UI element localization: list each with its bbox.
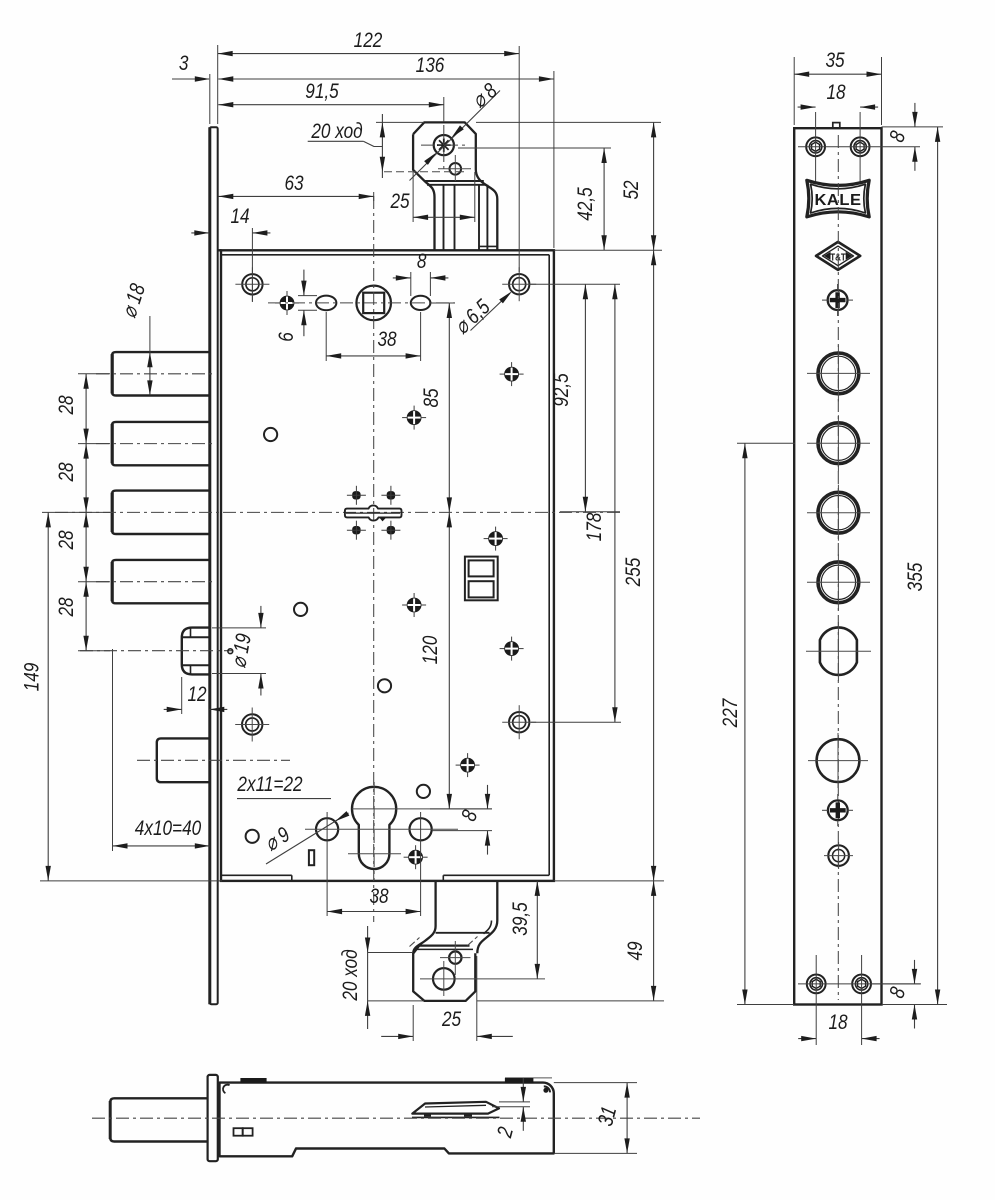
dimension 136 xyxy=(218,78,554,80)
dimension 38 top xyxy=(326,355,420,357)
cylinder hole row centerline xyxy=(305,828,458,830)
dimension 255 xyxy=(653,250,655,881)
mounting post top-left xyxy=(242,274,262,294)
deadbolt pin 4 xyxy=(112,560,209,603)
euro cylinder keyhole xyxy=(352,787,396,869)
faceplate screw top-right xyxy=(851,137,870,156)
side dimension 18 bottom xyxy=(798,1038,816,1040)
lower deadbolt hole side xyxy=(817,739,860,782)
dimension 8 ovals xyxy=(393,277,411,279)
spindle hub circle xyxy=(356,286,391,321)
bottom view right corner curl xyxy=(544,1086,550,1092)
bolt hole side 1 xyxy=(818,353,859,394)
rivet hole 5 xyxy=(246,830,259,843)
side view vertical centerline xyxy=(837,135,839,1000)
svg-text:38: 38 xyxy=(369,884,388,908)
dimension 25 top xyxy=(413,216,475,218)
actuator nut 1 xyxy=(353,492,360,499)
latch row main centerline xyxy=(55,511,620,513)
latch hole side (flatted) xyxy=(820,627,857,675)
side dimension 8 bottom xyxy=(914,960,916,984)
svg-text:38: 38 xyxy=(377,327,396,351)
dimension 149 xyxy=(47,512,49,881)
handle slot oval left xyxy=(316,296,336,311)
svg-text:2x11=22: 2x11=22 xyxy=(237,772,303,796)
case screw A xyxy=(280,296,294,310)
dimension 91,5 xyxy=(218,104,443,106)
dimension 38 bottom xyxy=(327,911,421,913)
svg-text:120: 120 xyxy=(418,636,442,665)
cylinder screw hole right xyxy=(410,818,432,840)
deadbolt pin 1 xyxy=(112,352,209,395)
top hook fold lines xyxy=(425,180,484,182)
lock case inner cover bottom-left segment xyxy=(222,874,292,876)
bottom view clip rectangles xyxy=(234,1128,243,1136)
cylinder screw hole left Ф9 xyxy=(316,818,338,840)
phillips screw lower xyxy=(828,800,848,820)
stop block double square xyxy=(465,557,498,601)
dimension 39,5 xyxy=(536,881,538,979)
svg-text:18: 18 xyxy=(826,80,845,104)
svg-text:25: 25 xyxy=(390,189,410,213)
case screw B xyxy=(505,367,519,381)
svg-text:39,5: 39,5 xyxy=(508,902,532,936)
dimension 20 hod top xyxy=(381,114,383,178)
mounting post bottom-left xyxy=(242,714,262,734)
lower deadbolt centerline xyxy=(137,759,290,761)
bottom view faceplate bar xyxy=(208,1075,218,1161)
bottom hook inner curve xyxy=(484,921,492,934)
bottom dimension 2 xyxy=(522,1078,524,1102)
svg-text:12: 12 xyxy=(187,682,206,706)
bolt hole side 3 xyxy=(818,492,859,533)
case screw D xyxy=(489,532,503,546)
extension lines top xyxy=(209,74,211,124)
svg-text:20 ход: 20 ход xyxy=(310,119,362,143)
bottom hook chamfer dashes xyxy=(410,938,420,947)
dimension 92,5 xyxy=(584,284,586,512)
faceplate side view plate xyxy=(794,128,881,1004)
bottom view latch blade xyxy=(412,1102,499,1114)
top hook stem inner edges xyxy=(443,185,445,251)
dimension 178 xyxy=(614,284,616,722)
bottom view case body xyxy=(220,1083,554,1157)
side dimension 355 xyxy=(937,127,939,1005)
dimension 42,5 xyxy=(603,148,605,250)
small ring hole side xyxy=(828,845,849,866)
svg-text:52: 52 xyxy=(619,180,643,199)
bolt hole side 2 xyxy=(818,423,859,464)
lock case top edge extension to faceplate xyxy=(217,249,221,251)
bottom view centerline xyxy=(92,1117,700,1119)
svg-text:18: 18 xyxy=(828,1010,847,1034)
dimension F19 xyxy=(260,606,262,628)
dimension 85 xyxy=(448,303,450,512)
KALE logo frame xyxy=(807,180,869,217)
deadbolt pin 3 xyxy=(112,491,209,534)
bottom view deadbolt xyxy=(110,1098,208,1141)
dimension 28 x4 xyxy=(85,374,87,444)
svg-text:14: 14 xyxy=(230,204,249,228)
svg-text:28: 28 xyxy=(54,530,78,550)
svg-text:122: 122 xyxy=(354,28,383,52)
svg-text:25: 25 xyxy=(441,1007,461,1031)
phillips screw upper xyxy=(828,290,848,310)
svg-text:4x10=40: 4x10=40 xyxy=(135,816,202,840)
actuator nut 4 xyxy=(387,527,394,534)
latch actuator bar xyxy=(345,505,402,520)
bottom hook plate outline xyxy=(413,946,475,1001)
top hook foot tab xyxy=(479,245,497,247)
bottom dimension 31 xyxy=(626,1083,628,1154)
side dimension 18 top xyxy=(798,106,816,108)
bottom hook fold line xyxy=(436,932,490,934)
deadbolt pin 2 xyxy=(112,422,209,465)
dimension 28 ticks xyxy=(78,373,110,375)
top hook retracted-position dashed line xyxy=(384,171,468,173)
svg-text:28: 28 xyxy=(54,395,78,415)
svg-text:49: 49 xyxy=(623,941,647,960)
TSE diamond logo xyxy=(816,242,860,270)
svg-text:136: 136 xyxy=(416,53,445,77)
svg-text:355: 355 xyxy=(903,563,927,592)
actuator nut 3 xyxy=(353,527,360,534)
svg-text:63: 63 xyxy=(284,171,303,195)
svg-text:149: 149 xyxy=(20,663,44,692)
bolt hole side 4 xyxy=(818,562,859,603)
bottom hook small hole xyxy=(449,951,461,963)
handle slot oval right xyxy=(411,296,431,310)
bottom screw row centerline xyxy=(798,983,920,985)
dimension 6 xyxy=(303,270,305,296)
leader line for Ф8 hole xyxy=(410,91,501,181)
dimension 63 xyxy=(218,195,373,197)
dimension 14 xyxy=(191,232,209,234)
bottom view top tabs xyxy=(241,1079,266,1083)
case screw G xyxy=(461,758,475,772)
dimension 122 xyxy=(218,53,520,55)
svg-text:255: 255 xyxy=(621,558,645,588)
rivet hole 3 xyxy=(378,679,391,692)
side dimension 35 xyxy=(794,73,881,75)
screw row centerline xyxy=(798,146,920,148)
actuator nut 2 xyxy=(387,492,394,499)
lock case inner cover right edge xyxy=(548,255,550,876)
top hook bracket plate outline xyxy=(413,122,497,250)
svg-text:20 ход: 20 ход xyxy=(338,949,362,1001)
keyhole stem bottom crosshair xyxy=(348,853,401,855)
dimension F9 leader xyxy=(266,813,349,864)
rivet hole 1 xyxy=(264,428,277,441)
latchbolt Ф19 xyxy=(182,628,210,675)
bottom hook hole xyxy=(433,968,455,990)
bottom hook plate top edges xyxy=(419,944,469,946)
lower deadbolt xyxy=(157,738,210,782)
dimension 20 hod bottom xyxy=(367,926,369,1029)
small slot near keyhole xyxy=(309,850,314,865)
dimension 12 xyxy=(164,708,182,710)
bottom view left corner curl xyxy=(223,1085,230,1094)
hub/oval row centerline xyxy=(268,302,455,304)
top hook small hole xyxy=(450,163,462,175)
dimension 25 bottom xyxy=(381,1035,413,1037)
case screw E xyxy=(407,598,421,612)
faceplate screw bottom-right xyxy=(852,975,871,994)
lock case inner cover bottom-right segment xyxy=(443,874,549,876)
rivet hole 2 xyxy=(294,603,307,616)
svg-text:28: 28 xyxy=(54,597,78,617)
svg-text:8: 8 xyxy=(417,249,427,273)
dimension 8 bottom xyxy=(487,785,489,809)
svg-text:227: 227 xyxy=(718,698,742,729)
faceplate screw bottom-left xyxy=(807,975,826,994)
svg-text:35: 35 xyxy=(825,48,844,72)
faceplate top notch xyxy=(833,123,840,129)
dimension F6.5 leader xyxy=(471,293,511,330)
mounting post top-right xyxy=(509,274,529,294)
lock case outer body xyxy=(221,250,554,881)
side dimension 8 top xyxy=(914,103,916,127)
svg-text:178: 178 xyxy=(582,513,606,542)
dimension 3 xyxy=(172,78,209,80)
svg-text:92,5: 92,5 xyxy=(549,373,573,407)
faceplate front strip xyxy=(210,127,218,1004)
dimension 52 xyxy=(653,122,655,250)
deadbolt row centerlines xyxy=(96,373,215,375)
rivet hole 4 xyxy=(417,785,430,798)
svg-text:6: 6 xyxy=(274,332,298,342)
case screw H xyxy=(409,850,423,864)
main vertical centerline xyxy=(373,196,375,922)
bottom hook stem outline xyxy=(413,881,435,954)
small pin right of latchbolt xyxy=(228,649,233,654)
top hook hole Ф8 xyxy=(434,135,454,155)
spindle square hole xyxy=(363,293,384,313)
svg-text:85: 85 xyxy=(419,388,443,407)
side dimension 227 xyxy=(744,443,746,1004)
case screw F xyxy=(505,642,519,656)
mounting post bottom-right xyxy=(509,712,529,732)
dimension 49 xyxy=(653,881,655,1001)
svg-text:91,5: 91,5 xyxy=(305,79,339,103)
svg-text:28: 28 xyxy=(54,462,78,482)
case screw C xyxy=(407,411,421,425)
lock case inner cover top edge xyxy=(222,254,550,256)
dimension 120 xyxy=(448,512,450,809)
latchbolt centerline xyxy=(80,650,232,652)
svg-text:3: 3 xyxy=(179,51,189,75)
svg-text:42,5: 42,5 xyxy=(573,187,597,221)
faceplate screw top-left xyxy=(806,137,825,156)
